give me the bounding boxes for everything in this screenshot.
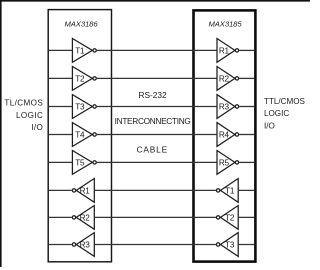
svg-text:T3: T3 (225, 241, 235, 250)
wire T1 output (U2) (192, 189, 216, 191)
wire R5 output (U2) (239, 161, 254, 163)
svg-text:INTERCONNECTING: INTERCONNECTING (115, 116, 191, 126)
wire R5 input (U2) (192, 161, 217, 163)
wire T2 input (U2) (238, 216, 254, 218)
inverting bubble R3 (U1) (72, 243, 75, 246)
label MAX3186 (64, 20, 98, 29)
svg-text:R2: R2 (80, 213, 91, 222)
wire T2 output (U2) (192, 216, 216, 218)
node label TL/CMOS LOGIC I/O (left) (4, 99, 43, 132)
wire T5 input (U1) (49, 161, 73, 163)
driver T4 (U1) (72, 123, 92, 147)
wire R1 output (U1) (49, 189, 72, 191)
wire T4 input (U1) (49, 134, 73, 136)
inverting bubble R4 (U2) (235, 133, 238, 136)
node label TTL/CMOS LOGIC I/O (right) (264, 97, 306, 130)
wire R3 input (U2) (192, 106, 217, 108)
inverting bubble R2 (U1) (72, 216, 75, 219)
receiver R4 (U2) (217, 123, 235, 147)
driver T1 (U1) (72, 39, 92, 63)
wire R4 output (U2) (239, 134, 254, 136)
label MAX3185 (208, 20, 242, 29)
wire T3 input (U1) (49, 106, 73, 108)
receiver R5 (U2) (217, 151, 235, 175)
svg-text:T1: T1 (75, 46, 85, 55)
receiver R1 (U2) (217, 39, 235, 63)
driver T5 (U1) (72, 151, 92, 175)
svg-text:R3: R3 (219, 103, 230, 112)
svg-text:T5: T5 (75, 158, 85, 167)
net label RS-232 (139, 90, 168, 100)
wire RS-232 line 7 between U1 and U2 (112, 216, 193, 218)
inverting bubble T1 (U2) (216, 189, 219, 192)
svg-text:T3: T3 (75, 103, 85, 112)
svg-text:LOGIC: LOGIC (264, 109, 289, 118)
wire RS-232 line 5 between U1 and U2 (112, 161, 193, 163)
wire RS-232 line 8 between U1 and U2 (112, 244, 193, 246)
wire RS-232 line 6 between U1 and U2 (112, 189, 193, 191)
wire R2 output (U2) (239, 77, 254, 79)
receiver R2 (U2) (217, 67, 235, 91)
svg-text:T2: T2 (225, 213, 235, 222)
inverting bubble T2 (U2) (216, 216, 219, 219)
svg-text:R4: R4 (219, 131, 230, 140)
inverting bubble R5 (U2) (235, 161, 238, 164)
inverting bubble R1 (U1) (72, 189, 75, 192)
svg-text:R3: R3 (80, 241, 91, 250)
svg-text:RS-232: RS-232 (139, 90, 168, 100)
svg-text:R1: R1 (219, 46, 230, 55)
wire R1 output (U2) (239, 49, 254, 51)
wire T1 input (U2) (238, 189, 254, 191)
wire R1 input (U2) (192, 49, 217, 51)
wire T3 output (U2) (192, 244, 216, 246)
inverting bubble R1 (U2) (235, 49, 238, 52)
receiver R3 (U2) (217, 95, 235, 119)
wire R3 output (U1) (49, 244, 72, 246)
frame top border line (0, 0, 310, 2)
svg-text:T2: T2 (75, 74, 85, 83)
receiver R1 (U1) (76, 179, 94, 203)
svg-text:R1: R1 (80, 186, 91, 195)
wire T2 input (U1) (49, 77, 73, 79)
wire R2 input (U1) (94, 216, 111, 218)
inverting bubble T3 (U1) (93, 105, 96, 108)
net label INTERCONNECTING (115, 116, 191, 126)
driver T2 (U2) (221, 206, 239, 230)
svg-text:T4: T4 (75, 131, 85, 140)
svg-text:I/O: I/O (264, 121, 275, 130)
wire T3 input (U2) (238, 244, 254, 246)
wire RS-232 line 3 between U1 and U2 (112, 106, 193, 108)
driver T1 (U2) (221, 179, 239, 203)
svg-text:MAX3186: MAX3186 (64, 20, 98, 29)
inverting bubble T3 (U2) (216, 243, 219, 246)
net label CABLE (137, 145, 168, 155)
IC U1 MAX3186 box (48, 10, 111, 262)
wire R3 input (U1) (94, 244, 111, 246)
frame left border line (0, 0, 2, 267)
svg-text:MAX3185: MAX3185 (208, 20, 242, 29)
inverting bubble T5 (U1) (93, 161, 96, 164)
svg-text:T1: T1 (225, 186, 235, 195)
inverting bubble R3 (U2) (235, 105, 238, 108)
svg-text:CABLE: CABLE (137, 145, 168, 155)
inverting bubble T1 (U1) (93, 49, 96, 52)
receiver R2 (U1) (76, 206, 94, 230)
wire RS-232 line 2 between U1 and U2 (112, 77, 193, 79)
wire RS-232 line 1 between U1 and U2 (112, 49, 193, 51)
wire T3 output (U1) (97, 106, 112, 108)
inverting bubble T4 (U1) (93, 133, 96, 136)
wire R4 input (U2) (192, 134, 217, 136)
svg-text:I/O: I/O (31, 123, 43, 132)
svg-text:R2: R2 (219, 74, 230, 83)
wire R2 input (U2) (192, 77, 217, 79)
driver T3 (U1) (72, 95, 92, 119)
wire T4 output (U1) (97, 134, 112, 136)
wire R1 input (U1) (94, 189, 111, 191)
wire R2 output (U1) (49, 216, 72, 218)
wire T2 output (U1) (97, 77, 112, 79)
driver T2 (U1) (72, 67, 92, 91)
driver T3 (U2) (221, 233, 239, 257)
inverting bubble R2 (U2) (235, 77, 238, 80)
svg-text:R5: R5 (219, 158, 230, 167)
svg-text:TL/CMOS: TL/CMOS (4, 99, 43, 108)
svg-text:LOGIC: LOGIC (16, 111, 43, 120)
wire R3 output (U2) (239, 106, 254, 108)
wire T1 output (U1) (97, 49, 112, 51)
wire RS-232 line 4 between U1 and U2 (112, 134, 193, 136)
inverting bubble T2 (U1) (93, 77, 96, 80)
wire T1 input (U1) (49, 49, 73, 51)
wire T5 output (U1) (97, 161, 112, 163)
svg-text:TTL/CMOS: TTL/CMOS (264, 97, 306, 106)
receiver R3 (U1) (76, 233, 94, 257)
IC U2 MAX3185 box (194, 10, 256, 261)
